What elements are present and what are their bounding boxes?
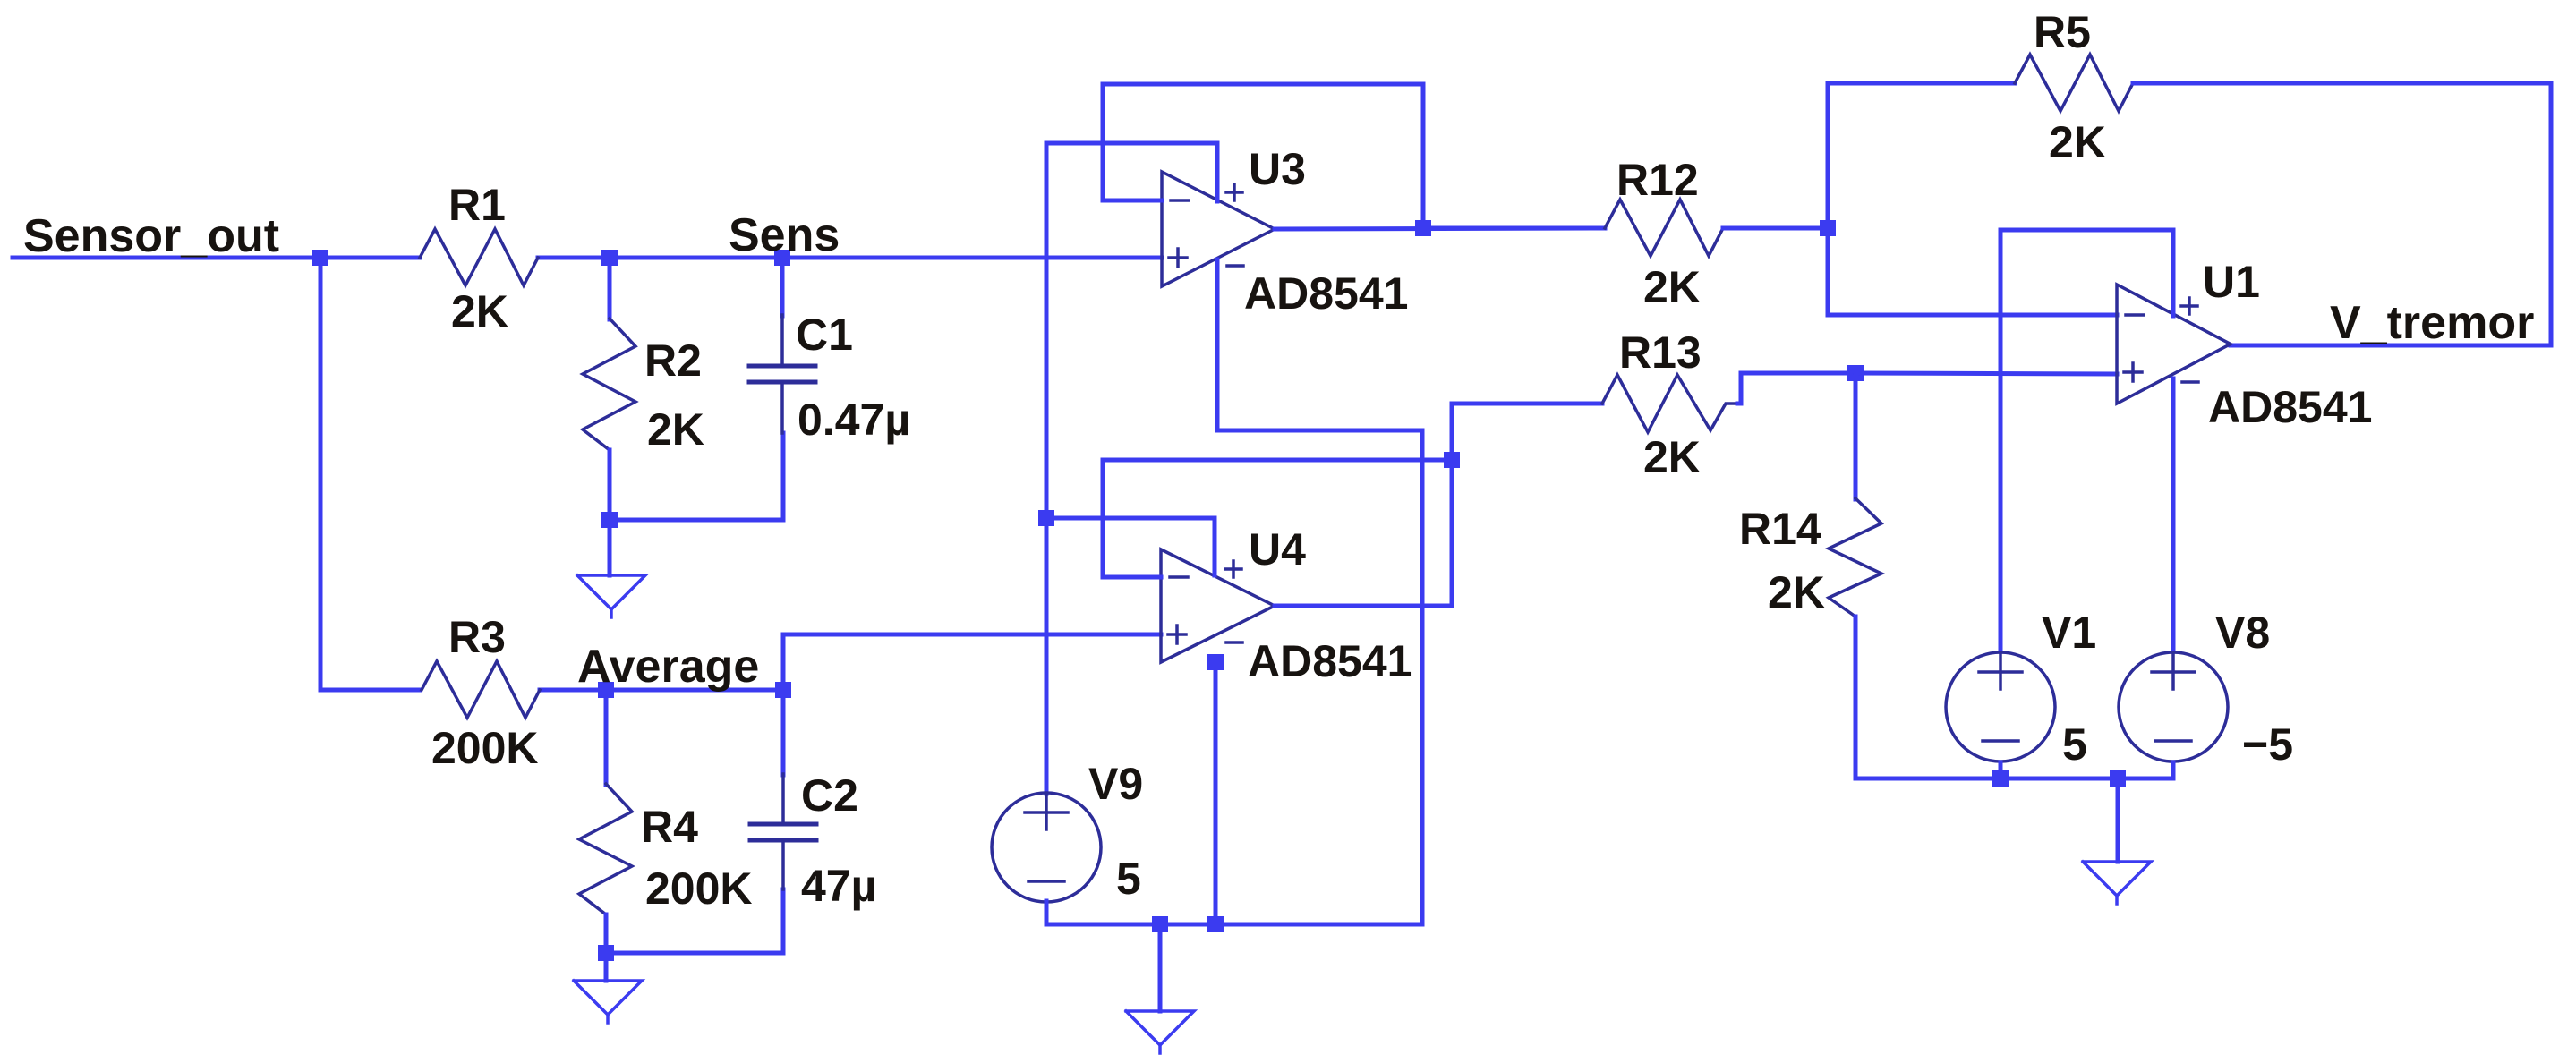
- ground below R2: [577, 520, 645, 617]
- wire U4 feedback to inverting input: [1103, 460, 1452, 606]
- junction node Sens: [774, 250, 790, 266]
- wire R3 to Average: [540, 688, 783, 693]
- junction U3 output: [1415, 220, 1431, 236]
- R3 designator: [448, 612, 506, 662]
- wire R13 from U4 feedback node: [1452, 404, 1602, 460]
- svg-text:AD8541: AD8541: [2208, 382, 2372, 432]
- R12 value 2K: [1643, 262, 1701, 312]
- svg-text:Sens: Sens: [729, 209, 840, 261]
- wire Sens to U3 non-inverting input: [782, 256, 1162, 260]
- svg-text:V1: V1: [2042, 608, 2096, 658]
- resistor R5: [2015, 55, 2133, 111]
- R12 designator: [1616, 155, 1699, 205]
- resistor R1: [420, 229, 538, 285]
- op-amp U4: [1161, 549, 1275, 662]
- junction R4-C2 ground-side node: [598, 945, 614, 961]
- R2 value 2K: [647, 404, 704, 455]
- wire R5 left lead: [1828, 81, 2015, 86]
- U4 part AD8541: [1248, 636, 1412, 686]
- wire R13 jog to U1 non-inverting node: [1737, 373, 1855, 404]
- svg-text:Average: Average: [577, 641, 759, 693]
- svg-text:5: 5: [2062, 719, 2087, 770]
- V1 designator: [2042, 608, 2096, 658]
- wire U3 output: [1275, 228, 1605, 229]
- wire U4 V- pin to 0V rail: [1214, 662, 1218, 924]
- wire U4 V+ pin from +5 rail: [1046, 518, 1215, 575]
- svg-text:C1: C1: [796, 310, 853, 360]
- V1 value 5: [2062, 719, 2087, 770]
- svg-text:2K: 2K: [1643, 432, 1701, 482]
- svg-text:2K: 2K: [1643, 262, 1701, 312]
- C1 designator: [796, 310, 853, 360]
- R1 designator: [448, 180, 506, 230]
- resistor R4: [579, 784, 632, 914]
- U3 designator: [1249, 144, 1306, 194]
- node Average label: [577, 641, 759, 693]
- junction +5 rail to U4 V+: [1038, 510, 1054, 526]
- wire R14 to supply 0V rail: [1855, 617, 2173, 778]
- resistor R14: [1829, 498, 1881, 617]
- R13 value 2K: [1643, 432, 1701, 482]
- V8 designator: [2215, 608, 2270, 658]
- R14 designator: [1739, 504, 1821, 554]
- svg-text:200K: 200K: [645, 863, 753, 914]
- C2 designator: [801, 770, 858, 821]
- svg-text:C2: C2: [801, 770, 858, 821]
- voltage source V9: [992, 793, 1101, 902]
- svg-text:2K: 2K: [1768, 567, 1825, 617]
- op-amp U1: [2117, 285, 2231, 404]
- junction U4 V- pin: [1207, 654, 1224, 670]
- junction node Average: [598, 682, 614, 698]
- node V_tremor label: [2330, 297, 2534, 349]
- wire R2/C1 bottom tie: [610, 433, 783, 520]
- svg-text:R2: R2: [644, 336, 702, 386]
- wire Average down to R4: [604, 690, 609, 785]
- capacitor C1: [749, 315, 815, 433]
- svg-text:V8: V8: [2215, 608, 2270, 658]
- wire V9 minus to 0V rail: [1046, 901, 1422, 924]
- wire R5 to V_tremor: [2133, 83, 2551, 345]
- wire U4 output: [1275, 604, 1452, 608]
- U4 designator: [1249, 524, 1306, 574]
- R2 designator: [644, 336, 702, 386]
- wire R1-R2 node down to R2: [608, 258, 612, 319]
- svg-text:R1: R1: [448, 180, 506, 230]
- svg-text:200K: 200K: [431, 723, 539, 773]
- R1 value 2K: [451, 286, 508, 336]
- wire V1 minus to rail: [1999, 762, 2003, 778]
- junction 0V rail at U4 V-: [1207, 916, 1224, 932]
- svg-text:AD8541: AD8541: [1244, 268, 1408, 319]
- svg-text:−5: −5: [2242, 719, 2293, 770]
- R5 value 2K: [2049, 117, 2106, 167]
- ground below R4: [574, 953, 642, 1023]
- wire V8 minus to rail: [2171, 762, 2176, 778]
- svg-text:5: 5: [1116, 854, 1141, 904]
- U3 part AD8541: [1244, 268, 1408, 319]
- wire R4/C2 bottom tie: [606, 889, 783, 953]
- V8 value -5: [2242, 719, 2293, 770]
- junction R2-C1 ground-side node: [601, 512, 618, 528]
- wire summing node to U1 inverting input: [1828, 228, 2117, 315]
- wire summing node up to R5: [1826, 83, 1830, 228]
- svg-text:2K: 2K: [2049, 117, 2106, 167]
- resistor R2: [583, 319, 635, 450]
- svg-text:2K: 2K: [451, 286, 508, 336]
- svg-text:AD8541: AD8541: [1248, 636, 1412, 686]
- junction rail at V1 minus: [1992, 770, 2009, 787]
- junction at Sensor_out split: [312, 250, 328, 266]
- wire R12 to summing node: [1723, 226, 1828, 231]
- ground below V9 rail: [1126, 924, 1194, 1053]
- node Sensor_out label: [23, 210, 279, 262]
- R5 designator: [2034, 7, 2091, 57]
- resistor R12: [1605, 200, 1723, 256]
- wire V8 plus up to U1 V- pin: [2171, 378, 2176, 651]
- R14 value 2K: [1768, 567, 1825, 617]
- R3 value 200K: [431, 723, 539, 773]
- wire U3 output to R12: [1423, 226, 1605, 231]
- svg-text:R13: R13: [1619, 327, 1702, 378]
- wire Average down to C2: [781, 690, 786, 775]
- wire U3 V+ supply pin: [1046, 143, 1217, 794]
- C2 value 47µ: [801, 861, 876, 911]
- wire R4 to ground node: [604, 914, 609, 953]
- svg-text:2K: 2K: [647, 404, 704, 455]
- wire to U1 non-inverting input: [1855, 373, 2117, 374]
- svg-text:U4: U4: [1249, 524, 1306, 574]
- junction R12/R5/U1- node: [1820, 220, 1836, 236]
- resistor R3: [422, 661, 540, 718]
- capacitor C2: [750, 774, 816, 889]
- V9 designator: [1088, 759, 1143, 809]
- ground below V1/V8: [2083, 778, 2151, 904]
- svg-text:R14: R14: [1739, 504, 1821, 554]
- node Sens label: [729, 209, 840, 261]
- wire Sensor_out input: [13, 256, 420, 260]
- junction U4 feedback / R13 node: [1444, 452, 1460, 468]
- wire node down to R14: [1854, 373, 1858, 499]
- wire Sens down to C1: [780, 258, 785, 316]
- wire Average to U4 non-inverting input: [783, 634, 1161, 690]
- V9 value 5: [1116, 854, 1141, 904]
- svg-text:R12: R12: [1616, 155, 1699, 205]
- voltage source V1: [1946, 652, 2055, 761]
- svg-text:0.47µ: 0.47µ: [798, 395, 910, 445]
- op-amp U3: [1162, 172, 1275, 286]
- svg-text:Sensor_out: Sensor_out: [23, 210, 279, 262]
- wire U3 feedback to inverting input: [1103, 84, 1423, 228]
- svg-text:U1: U1: [2203, 257, 2260, 307]
- wire V1 plus up to U1 V+ pin: [2000, 230, 2173, 651]
- R13 designator: [1619, 327, 1702, 378]
- svg-text:R5: R5: [2034, 7, 2091, 57]
- svg-text:U3: U3: [1249, 144, 1306, 194]
- R4 designator: [641, 802, 698, 852]
- resistor R13: [1602, 375, 1737, 432]
- U1 part AD8541: [2208, 382, 2372, 432]
- junction R13/R14/U1+ node: [1847, 365, 1864, 381]
- junction rail at ground: [2110, 770, 2126, 787]
- svg-text:R3: R3: [448, 612, 506, 662]
- svg-text:V9: V9: [1088, 759, 1143, 809]
- voltage source V8: [2119, 652, 2228, 761]
- wire Sensor_out down to R3: [320, 258, 420, 690]
- junction Average-C2 node: [775, 682, 791, 698]
- wire U3 V- pin to 0V rail: [1217, 259, 1422, 924]
- U1 designator: [2203, 257, 2260, 307]
- svg-text:V_tremor: V_tremor: [2330, 297, 2534, 349]
- wire R1 to R2 node: [538, 256, 782, 260]
- svg-text:47µ: 47µ: [801, 861, 876, 911]
- junction R1-R2 node: [601, 250, 618, 266]
- junction 0V rail at ground: [1152, 916, 1168, 932]
- C1 value 0.47µ: [798, 395, 910, 445]
- wire R2 to ground node: [608, 450, 612, 520]
- R4 value 200K: [645, 863, 753, 914]
- svg-text:R4: R4: [641, 802, 698, 852]
